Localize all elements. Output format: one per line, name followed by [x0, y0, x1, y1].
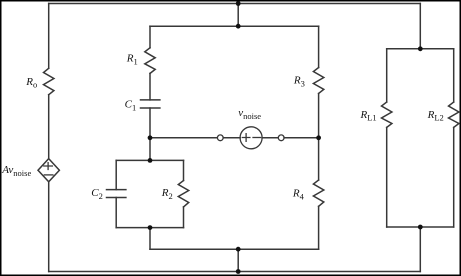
wire top main: (48.7,3.5) to (420.3,3.5)	[49, 3, 421, 5]
node dot inner top	[236, 24, 241, 29]
resistor R3	[313, 68, 323, 94]
svg-text:R4: R4	[292, 187, 305, 201]
wire right feed lower: bottom wire up to RL box	[419, 227, 421, 272]
resistor R1	[145, 48, 155, 74]
wire mid node to R4	[318, 138, 320, 180]
wire RL2 branch lower	[453, 127, 455, 227]
wire inner bottom tap down to main bottom	[237, 249, 239, 271]
dependent source Avnoise (diamond)	[38, 159, 59, 182]
svg-text:R1: R1	[126, 52, 138, 66]
wire R4 to inner bottom	[318, 206, 320, 249]
wire middle left segment to terminal	[150, 137, 217, 139]
wire source to right terminal	[262, 137, 278, 139]
svg-text:R2: R2	[161, 187, 173, 201]
wire R3 to mid node	[318, 94, 320, 138]
svg-text:R3: R3	[293, 75, 305, 89]
svg-text:C1: C1	[125, 98, 137, 112]
capacitor C2	[107, 190, 126, 198]
wire R1 to C1	[149, 73, 151, 100]
node dot mid left	[148, 135, 153, 140]
wire C2R2 box to inner bottom	[149, 228, 151, 250]
node dot top main	[236, 1, 241, 6]
node dot RL top	[418, 46, 423, 51]
wire C2R2 box top	[116, 159, 183, 161]
resistor Ro	[44, 68, 54, 94]
wire C2 branch lower	[115, 198, 117, 228]
wire RL1 branch lower	[386, 127, 388, 227]
svg-text:C2: C2	[91, 187, 103, 201]
wire R1 branch upper	[149, 26, 151, 48]
svg-text:RL1: RL1	[360, 109, 377, 123]
wire RL box top	[387, 48, 454, 50]
wire right feed upper: top wire down to RL box	[419, 4, 421, 49]
resistor R2	[178, 181, 188, 208]
wire right terminal to R3 branch	[284, 137, 319, 139]
wire Ro to source	[48, 95, 50, 159]
source vnoise circle	[240, 127, 262, 149]
wire RL1 branch upper	[386, 49, 388, 102]
wire terminal to source	[223, 137, 240, 139]
wire R2 branch upper	[183, 160, 185, 180]
wire inner bottom	[150, 248, 319, 250]
plus sign in vnoise	[242, 134, 250, 142]
wire source to bottom-left corner	[48, 182, 50, 272]
node dot main bottom	[236, 269, 241, 274]
node dot inner bottom	[236, 247, 241, 252]
wire C1 to mid node	[149, 108, 151, 138]
node dot box bottom	[148, 225, 153, 230]
wire left branch upper: top corner down to Ro	[48, 4, 50, 69]
wire R3 branch upper	[318, 26, 320, 67]
wire top tap down to inner loop	[237, 4, 239, 27]
svg-text:Ro: Ro	[25, 76, 37, 89]
svg-text:vnoise: vnoise	[238, 107, 261, 121]
wire bottom main: (48.7,271.5) to (420,271.5)	[49, 271, 421, 273]
node dot mid right	[316, 135, 321, 140]
svg-text:Avnoise: Avnoise	[1, 164, 31, 178]
minus sign in diamond	[44, 174, 53, 176]
wire RL box bottom	[387, 226, 454, 228]
resistor RL2	[449, 102, 459, 127]
svg-text:RL2: RL2	[427, 109, 444, 123]
plus sign in diamond	[44, 163, 53, 170]
wire mid node down to C2R2 box	[149, 138, 151, 161]
wire R2 branch lower	[183, 207, 185, 228]
terminal circle left	[217, 135, 223, 141]
node dot RL bottom	[418, 225, 423, 230]
capacitor C1	[141, 100, 160, 108]
wire inner top	[150, 25, 319, 27]
terminal circle right	[278, 135, 284, 141]
resistor R4	[313, 180, 323, 206]
node dot box top	[148, 158, 153, 163]
wire C2R2 box bottom	[116, 227, 183, 229]
minus sign in vnoise	[253, 137, 261, 139]
wire C2 branch upper	[115, 160, 117, 189]
resistor RL1	[382, 102, 392, 127]
wire RL2 branch upper	[453, 49, 455, 102]
